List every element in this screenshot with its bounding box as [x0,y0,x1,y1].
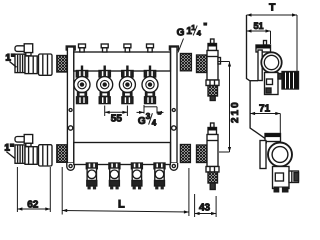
svg-text:L: L [118,199,125,211]
ball valve V1 body [25,56,37,74]
outlet fitting 1 [86,163,97,189]
ball valve V1 handle lever [15,44,33,56]
flowmeter valve unit 1 [74,44,90,104]
union nut hatched top-right manifold end [180,54,191,71]
svg-text:43: 43 [199,203,211,214]
union nut hatched top-left manifold end [57,56,67,73]
svg-text:4: 4 [197,29,202,38]
svg-text:G: G [138,116,146,127]
dimension 43 [195,194,217,217]
svg-text:62: 62 [27,200,39,211]
end piece assembly top-right: drain valve [206,80,219,101]
flowmeter valve unit 4 [142,44,158,104]
flowmeter valve unit 2 [97,44,113,104]
side view bottom: manifold tube circle [268,143,292,167]
side view top: air vent [256,41,271,53]
end piece assembly top-right: union nut [197,55,208,73]
dimension T [247,2,298,74]
side view bottom: fill cap [265,134,281,142]
label 1 inch bottom [5,143,16,159]
right mounting bracket [169,46,178,170]
left mounting bracket [66,46,75,170]
side view top: manifold tube circle [261,52,281,72]
svg-text:1": 1" [5,143,15,154]
dimension 71 [250,104,280,145]
svg-text:G: G [177,27,185,38]
svg-text:4: 4 [152,119,157,128]
label G 1 1/4 inch with leader [177,21,208,53]
end piece assembly bottom-right: body [207,135,218,167]
dimension L [62,167,189,216]
dimension 51 [247,21,271,44]
dimension G 3/4 outlet thread [137,105,164,114]
svg-text:": " [203,21,207,31]
side view top: actuator knob [278,72,299,90]
side view top: bracket plate [258,50,262,81]
svg-text:": " [157,111,161,121]
ball valve V2 body [25,147,37,165]
outlet fitting 4 [154,163,165,189]
svg-text:51: 51 [254,21,264,31]
union nut hatched bottom-right manifold end [180,145,190,163]
label G 3/4 inch [138,111,162,128]
side view: wall bracket profile [247,15,267,144]
side view bottom: bracket plate [260,141,266,169]
top manifold bar [74,52,171,71]
dimension 55 [105,106,128,125]
side view bottom: valve body below [273,167,290,193]
dimension 62 [17,167,50,212]
side view top: valve body below [265,73,279,95]
svg-text:T: T [269,2,276,14]
end piece assembly bottom-right: union nut [197,145,208,163]
end piece assembly top-right: body [207,51,221,81]
label 1 inch top [6,53,17,68]
ball valve V1 knurled inlet nut [15,54,25,72]
flowmeter valve unit 3 [119,44,135,104]
bottom manifold bar [74,143,171,165]
ball valve V2 union nut [39,145,53,166]
svg-text:210: 210 [230,100,241,123]
ball valve V1 union nut [39,54,53,75]
outlet fitting 2 [109,163,120,189]
end piece assembly bottom-right: cap [208,123,217,135]
side view bottom: valve cap knob [289,171,299,183]
end piece assembly top-right: air vent cap [208,39,217,51]
svg-text:71: 71 [259,104,271,115]
ball valve V2 knurled inlet nut [15,145,25,163]
union nut hatched bottom-left manifold end [57,145,67,163]
svg-text:55: 55 [111,113,123,124]
ball valve V2 handle lever [15,135,33,147]
end piece assembly bottom-right: drain valve [206,167,219,190]
outlet fitting 3 [131,163,142,189]
dimension 210 [219,62,241,153]
